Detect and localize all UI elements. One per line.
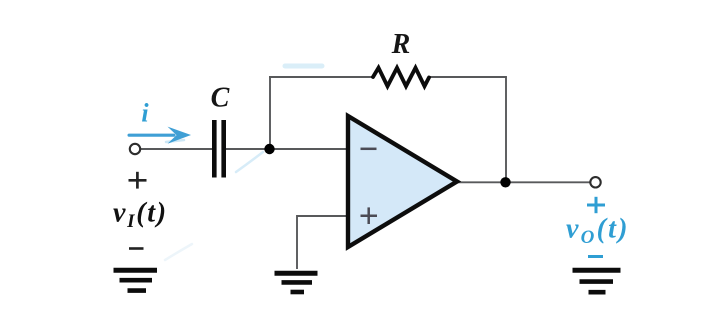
ground (output side) xyxy=(573,270,621,292)
svg-text:C: C xyxy=(211,83,230,114)
op-amp non-inverting pin plus sign xyxy=(361,207,378,224)
op-amp inverting pin minus sign xyxy=(361,148,377,151)
current arrow i xyxy=(128,127,192,144)
svg-text:R: R xyxy=(391,29,411,60)
wire: feedback left vertical xyxy=(269,76,271,150)
node A: inverting input junction xyxy=(264,144,274,154)
capacitor C plates xyxy=(212,120,217,178)
label + (output, cyan) xyxy=(587,197,605,213)
wire: feedback right vertical xyxy=(505,76,507,183)
op-amp U1 triangle xyxy=(348,116,457,247)
ground (input side) xyxy=(114,270,158,290)
input terminal circle xyxy=(130,144,140,154)
faint blue smudge near input wire xyxy=(166,140,184,142)
svg-text:i: i xyxy=(141,99,149,128)
faint blue curve artifact below node xyxy=(236,152,263,172)
wire: input terminal to capacitor xyxy=(140,148,213,150)
resistor R zigzag xyxy=(373,68,429,86)
wire: capacitor to inverting input (through node) xyxy=(225,148,349,150)
wire: op-amp output to terminal xyxy=(456,181,591,183)
faint blue smudge above feedback wire xyxy=(285,64,322,69)
label - (input) xyxy=(129,247,144,250)
faint gray-blue diagonal smudge lower-left xyxy=(165,244,192,260)
node B: output junction xyxy=(500,177,510,187)
svg-text:vI(t): vI(t) xyxy=(113,198,168,233)
ground (non-inverting input) xyxy=(275,273,318,292)
output terminal circle xyxy=(590,177,600,187)
wire: non-inverting input horizontal xyxy=(297,215,349,217)
label - (output, cyan) xyxy=(588,255,603,258)
wire: feedback top horizontal left of R xyxy=(269,76,374,78)
label + (input) xyxy=(129,172,147,189)
wire: feedback top horizontal right of R xyxy=(428,76,507,78)
svg-text:vO(t): vO(t) xyxy=(566,214,630,249)
wire: non-inverting ground stem xyxy=(296,215,298,269)
